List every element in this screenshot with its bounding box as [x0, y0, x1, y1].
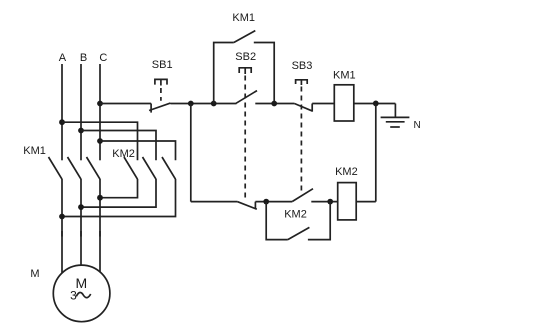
node KM2 feed tap phase B: [78, 128, 84, 134]
contactor KM2 pole 2 contact: [143, 157, 157, 179]
wire KM2 feed from phase C: [100, 141, 176, 160]
wire bottom rail segment 3: [311, 201, 337, 203]
contactor coil KM1: [333, 69, 356, 121]
wire node A down leg: [190, 104, 192, 202]
motor M 3-phase: [53, 265, 110, 322]
wire top rail segment 2: [170, 103, 236, 105]
wire bottom rail segment 1: [191, 201, 237, 203]
node D bottom-right: [327, 199, 333, 205]
ground / neutral N: [381, 104, 421, 132]
pushbutton SB3 (NC contact on top rail): [292, 60, 313, 191]
wire KM2 feed from phase B: [81, 131, 156, 161]
node KM2 feed tap phase A: [59, 119, 65, 125]
pushbutton SB2 NC interlock contact on bottom rail: [237, 202, 257, 210]
svg-text:M: M: [30, 268, 39, 280]
svg-text:N: N: [414, 120, 421, 131]
node KM2 feed tap phase C: [97, 138, 103, 144]
contactor KM2 pole 3 contact: [162, 157, 176, 179]
svg-text:KM2: KM2: [284, 209, 307, 221]
node C bottom-left: [263, 199, 269, 205]
node KM2 return tap phase C: [97, 195, 103, 201]
contactor KM1 pole 3 contact: [87, 157, 101, 179]
svg-text:KM1: KM1: [23, 145, 46, 157]
contactor coil KM2: [335, 166, 358, 220]
svg-text:KM1: KM1: [333, 69, 356, 81]
node KM1 latch left: [211, 101, 217, 107]
svg-text:M: M: [75, 275, 87, 291]
wire phase A lower: [61, 179, 63, 273]
pushbutton SB1 (NC stop): [149, 59, 172, 112]
wire KM2 pole 3 output to phase A: [62, 179, 176, 217]
wire KM2 pole 1 output to phase C: [100, 179, 138, 198]
wire right riser node B down: [375, 104, 377, 202]
svg-text:SB3: SB3: [292, 60, 313, 72]
wire phase A upper: [61, 64, 63, 160]
svg-text:SB2: SB2: [235, 51, 256, 63]
svg-text:KM2: KM2: [335, 166, 358, 178]
contactor KM1 auxiliary NO latch contact: [214, 12, 275, 103]
wire KM2 feed from phase A: [62, 122, 138, 160]
wire top rail segment 5: [354, 103, 396, 105]
contactor KM1 pole 2 contact: [68, 157, 82, 179]
wire phase C upper: [99, 64, 101, 160]
svg-text:SB1: SB1: [152, 59, 173, 71]
svg-text:KM2: KM2: [112, 148, 135, 160]
node B right rail: [373, 101, 379, 107]
wire top rail segment 1: [100, 103, 151, 105]
wire KM2 pole 2 output to phase B: [81, 179, 156, 207]
wire phase B lower: [80, 179, 82, 265]
pushbutton SB3 NO contact arm: [292, 189, 313, 202]
contactor KM1 pole 1 contact: [49, 157, 63, 179]
splice mark phase B: [80, 231, 82, 237]
pushbutton SB2 (start, NO contact on top rail): [235, 51, 257, 198]
wire bottom rail segment 2: [255, 201, 292, 203]
node KM2 return tap phase B: [78, 204, 84, 210]
node control tap on phase C: [97, 101, 103, 107]
wire KM2 coil to right riser: [356, 201, 376, 203]
svg-text:KM1: KM1: [232, 12, 255, 24]
node KM2 return tap phase A: [59, 214, 65, 220]
wire phase C lower: [99, 179, 101, 272]
wire top rail segment 3: [255, 103, 294, 105]
node KM1 latch right: [271, 101, 277, 107]
contactor KM2 pole 1 contact: [124, 157, 138, 179]
wire top rail segment 4: [312, 103, 334, 105]
splice mark phase A: [61, 231, 63, 237]
contactor KM2 auxiliary NO latch contact: [266, 202, 330, 240]
svg-text:A: A: [59, 52, 67, 64]
svg-text:B: B: [80, 52, 87, 64]
splice mark phase C: [99, 231, 101, 237]
svg-text:C: C: [99, 52, 107, 64]
wire phase B upper: [80, 64, 82, 160]
node A rail split: [188, 101, 194, 107]
